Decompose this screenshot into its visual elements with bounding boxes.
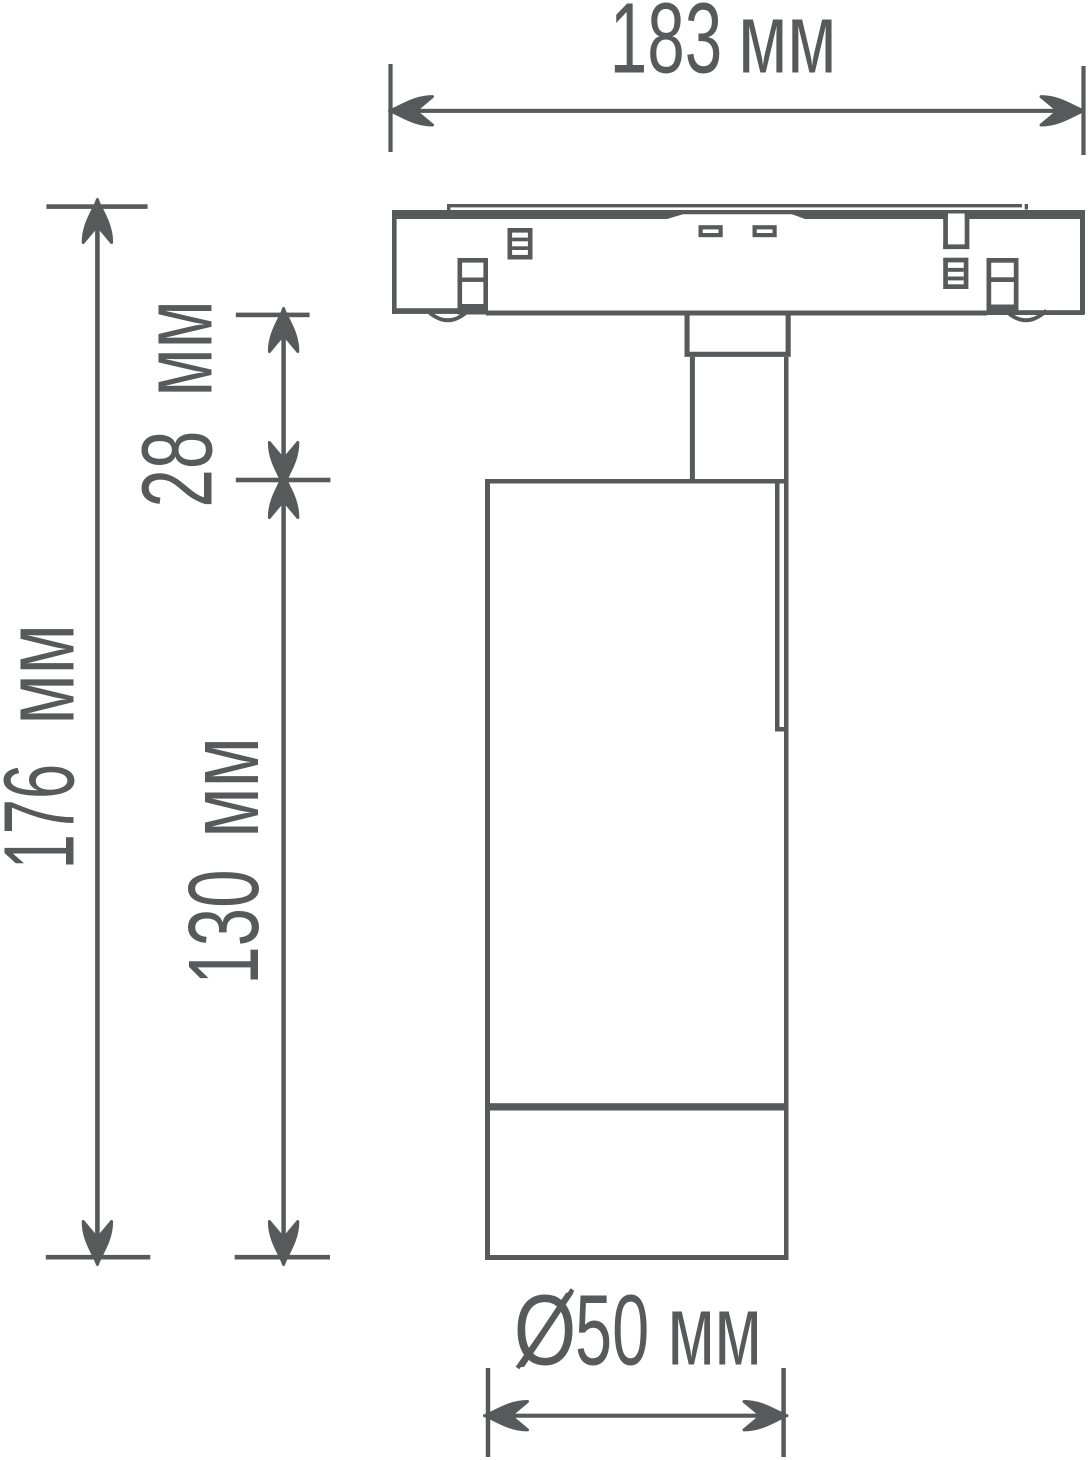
track strip left end tick: [447, 204, 450, 211]
176mm dimension line: [95, 207, 100, 1257]
130mm top arrowhead (up): [269, 475, 297, 518]
adapter left edge: [392, 210, 397, 314]
bottom dimension arrowhead right: [744, 1401, 787, 1429]
svg-text:130: 130: [168, 869, 280, 984]
lamp body top line: [485, 479, 789, 484]
top dimension extension line right: [1081, 66, 1085, 155]
svg-text:176: 176: [0, 764, 95, 870]
svg-text:мм: мм: [668, 1275, 762, 1387]
bottom dimension arrowhead left: [485, 1401, 528, 1429]
130mm bottom arrowhead (down): [269, 1222, 297, 1265]
28mm / 130mm shared tick: [236, 478, 331, 483]
right hanging slot: [948, 214, 965, 245]
center housing small port right: [755, 227, 775, 235]
adapter bottom line center section: [486, 311, 987, 316]
track strip (thin top profile): [447, 204, 1022, 207]
adapter bottom line left section: [392, 308, 460, 314]
left latch (lock tab): [458, 260, 489, 314]
lamp body inner seam: [775, 483, 780, 731]
lamp body left edge: [485, 479, 490, 1260]
176mm bottom arrowhead (down): [83, 1222, 111, 1265]
stem shaft left line: [690, 357, 695, 481]
130mm bottom tick: [235, 1255, 330, 1260]
lamp body bottom line: [485, 1255, 789, 1260]
bottom dimension line 50mm: [486, 1414, 786, 1418]
adapter right edge: [1080, 210, 1085, 315]
svg-text:мм: мм: [122, 300, 233, 396]
svg-text:28: 28: [122, 431, 234, 508]
28mm bottom arrowhead (down): [269, 443, 297, 486]
top dimension line 183mm: [390, 109, 1084, 113]
adapter bottom line right section: [1017, 310, 1084, 315]
right roller arc: [1005, 311, 1046, 321]
lamp body divider line: [485, 1103, 789, 1110]
left roller arc: [427, 311, 469, 321]
svg-text:мм: мм: [738, 0, 836, 94]
28mm top arrowhead (up): [269, 309, 297, 352]
center housing small port left: [701, 227, 721, 235]
svg-text:50: 50: [575, 1275, 649, 1387]
bottom dimension extension line right: [781, 1368, 786, 1457]
track strip right end tick: [1025, 204, 1028, 210]
svg-text:мм: мм: [168, 737, 280, 838]
stem shaft right line / body right edge: [784, 357, 789, 1260]
176mm top tick: [46, 204, 147, 209]
adapter top bar: [392, 210, 1084, 219]
bottom dimension extension line left: [486, 1368, 491, 1457]
right contact ladder: [946, 260, 967, 287]
176mm bottom tick: [46, 1255, 151, 1260]
left contact ladder: [510, 230, 530, 257]
28mm top tick: [236, 313, 310, 318]
right latch (lock tab): [987, 260, 1019, 315]
28mm dimension line: [281, 315, 286, 481]
lamp body seam bottom hook: [775, 727, 786, 732]
130mm dimension line: [281, 480, 286, 1257]
diameter sign slash extension: [518, 1290, 573, 1369]
top dimension arrowhead left: [390, 97, 433, 125]
svg-text:183: 183: [610, 0, 722, 95]
top dimension extension line left: [388, 64, 392, 152]
176mm top arrowhead (up): [83, 200, 111, 243]
svg-text:мм: мм: [0, 624, 95, 725]
stem collar: [687, 315, 788, 354]
top dimension arrowhead right: [1041, 97, 1084, 125]
